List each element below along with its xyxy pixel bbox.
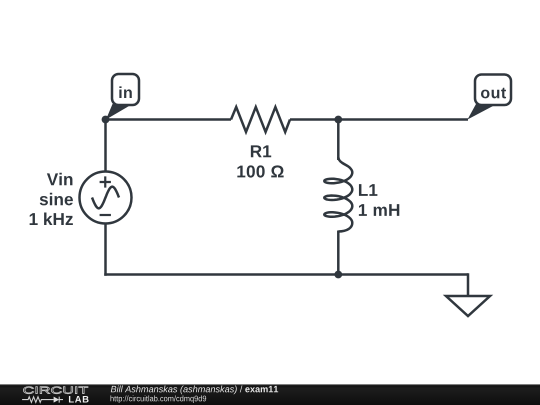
label R1 [251,145,271,157]
CircuitLab logo: LAB wordmark [69,396,89,403]
label L1 [359,184,377,196]
wire: bottom ground rail [104,273,468,276]
wire: node in down to voltage source plus terminal [104,120,107,173]
wire: voltage source minus terminal down to bottom rail [104,224,107,276]
value label 100 Ohm [237,165,283,177]
resistor R1 [231,107,290,178]
label Vin [47,173,73,185]
plus sign [100,176,111,187]
wire: resistor R1 right terminal to out flag [290,118,468,121]
node in: junction dot [102,116,110,124]
ground [446,296,490,316]
net flag "in" [106,74,139,120]
minus sign [100,214,111,216]
sine wave symbol [92,187,119,209]
wire: top node to inductor L1 top terminal [337,120,340,161]
footer credit line 1: Bill Ashmanskas (ashmanskas) / exam11 [111,386,278,395]
wire: bottom rail corner to ground symbol [467,275,468,297]
wire: node in to resistor R1 left terminal [106,118,232,121]
voltage source V1 [30,172,132,226]
label sine [40,193,73,206]
CircuitLab logo: CIRCUIT outlined wordmark [23,387,88,394]
label 1 kHz [30,213,73,225]
wire: inductor L1 bottom terminal to bottom rail [337,231,340,275]
net flag "out" [468,75,512,120]
junction dot: bottom node joining L1 and ground rail [334,271,342,279]
junction dot: top node joining R1, L1 and out [334,116,342,124]
footer bar [0,384,540,405]
CircuitLab logo: diode symbol [54,397,60,403]
CircuitLab logo: resistor zigzag wire [22,397,53,403]
footer credit line 2: circuitlab short URL [111,395,207,403]
value label 1 mH [359,204,399,216]
inductor L1 [324,157,399,232]
